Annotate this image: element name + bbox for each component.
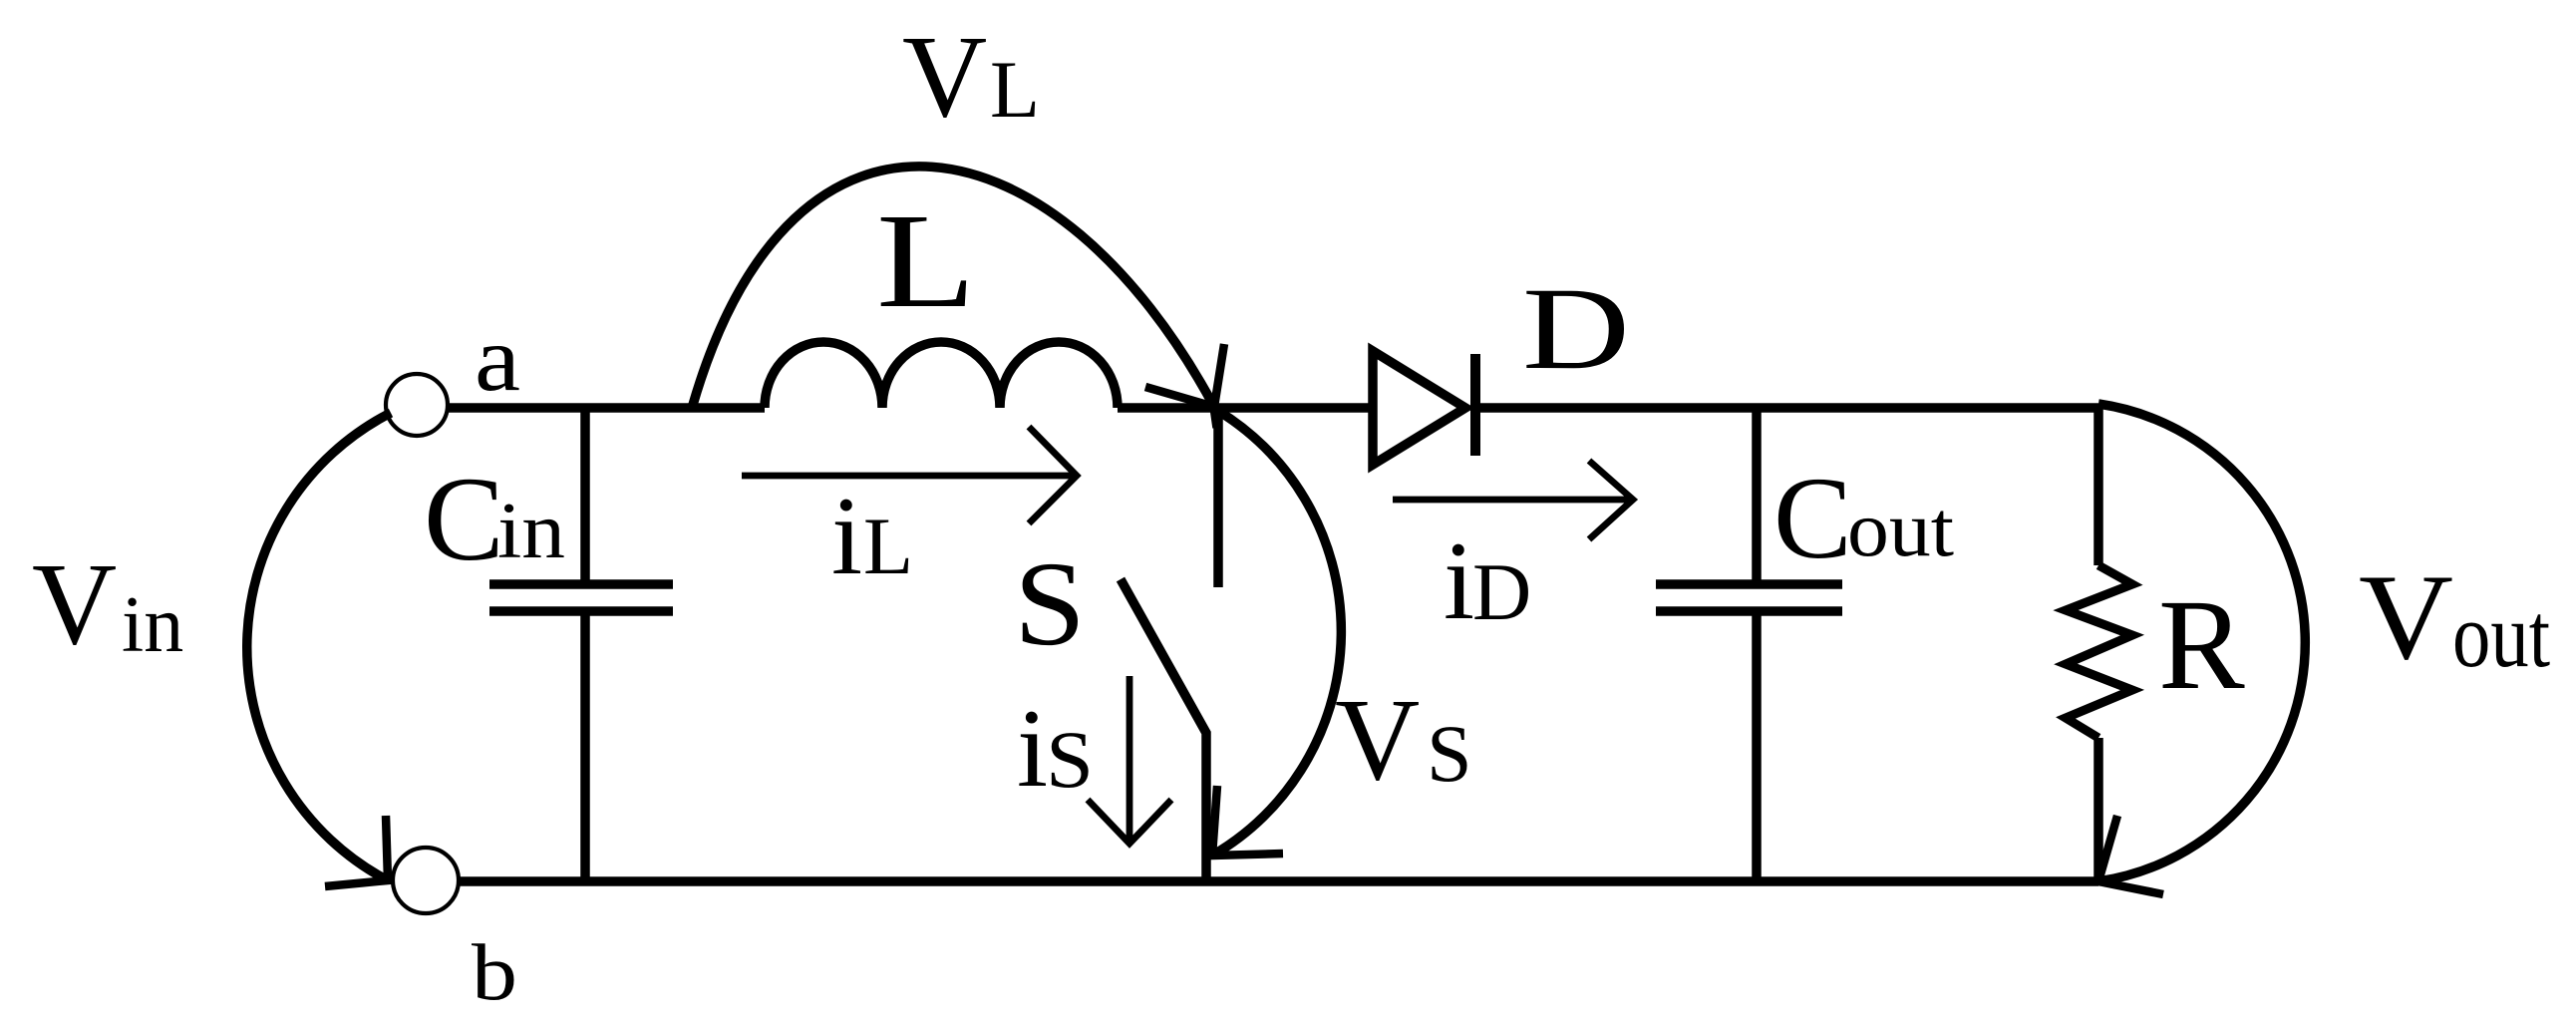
resistor R zigzag (2066, 565, 2132, 738)
capacitor Cout bottom lead (1752, 615, 1762, 881)
svg-text:out: out (1847, 487, 1954, 573)
wire bottom rail (459, 876, 2098, 886)
label Cin (424, 453, 565, 586)
node b label (472, 927, 517, 1017)
svg-text:i: i (1017, 687, 1048, 811)
svg-text:out: out (2452, 584, 2550, 686)
label Vin (32, 538, 183, 669)
iS current arrow (1088, 676, 1171, 844)
label Cout (1773, 453, 1954, 583)
node b (393, 848, 459, 913)
diode D anode wire (1368, 403, 1378, 413)
wire after inductor (1118, 403, 1373, 413)
svg-text:S: S (1046, 714, 1094, 805)
svg-text:R: R (2158, 573, 2245, 717)
resistor R top lead (2093, 404, 2103, 565)
resistor R bottom lead (2093, 738, 2103, 881)
inductor L (765, 342, 1118, 408)
label VS (1335, 674, 1472, 805)
capacitor Cout top lead (1752, 408, 1762, 580)
svg-text:S: S (1014, 537, 1086, 671)
capacitor Cin top lead (580, 408, 590, 580)
label VL (902, 11, 1040, 142)
svg-text:D: D (1472, 546, 1531, 637)
wire top rail left (448, 403, 765, 413)
label D (1522, 263, 1630, 394)
VL arc (693, 167, 1217, 428)
label R (2158, 573, 2245, 717)
label L (876, 186, 976, 336)
iD current arrow (1393, 461, 1633, 539)
label Vout (2359, 548, 2550, 686)
svg-text:L: L (863, 501, 913, 591)
svg-text:b: b (472, 927, 517, 1017)
label iS (1017, 687, 1094, 811)
Vout arc (2098, 404, 2305, 881)
wire top rail right (1475, 403, 2098, 413)
svg-text:V: V (2359, 548, 2453, 685)
svg-text:V: V (902, 11, 987, 142)
svg-text:V: V (32, 538, 117, 669)
VS arc (1212, 411, 1341, 856)
svg-text:i: i (831, 475, 862, 598)
label iD (1444, 519, 1531, 643)
capacitor Cin plates (489, 584, 673, 611)
capacitor Cin bottom lead (580, 615, 590, 881)
svg-text:V: V (1335, 674, 1420, 805)
diode D cathode bar (1470, 354, 1480, 456)
Vout arrowhead (2098, 816, 2163, 894)
label S (1014, 537, 1086, 671)
node a label (475, 307, 520, 411)
svg-text:D: D (1522, 263, 1630, 394)
switch S top contact (1213, 408, 1223, 587)
svg-text:L: L (876, 186, 976, 336)
svg-text:L: L (990, 44, 1040, 135)
svg-text:in: in (497, 488, 565, 575)
svg-text:C: C (1773, 453, 1852, 583)
svg-text:a: a (475, 307, 520, 411)
label iL (831, 475, 913, 598)
VS arrowhead (1212, 786, 1283, 856)
switch S blade (1121, 579, 1206, 881)
source Vin arrowhead (325, 816, 388, 886)
VL arrowhead (1145, 344, 1224, 407)
source Vin arc (247, 413, 391, 880)
node a (386, 374, 448, 436)
svg-text:i: i (1444, 519, 1474, 643)
iL current arrow (742, 427, 1077, 523)
diode D triangle (1373, 351, 1465, 465)
svg-text:S: S (1427, 708, 1472, 799)
capacitor Cout plates (1656, 584, 1842, 611)
svg-text:in: in (122, 581, 183, 669)
svg-text:C: C (424, 453, 504, 586)
